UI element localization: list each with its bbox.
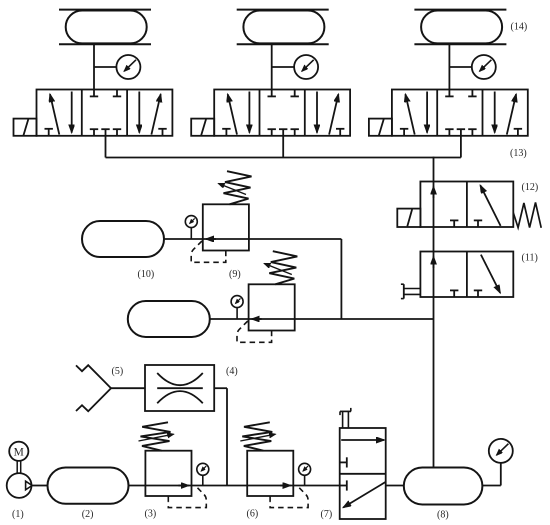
- label (5): [112, 366, 124, 377]
- svg-text:M: M: [14, 446, 24, 458]
- wire: valve 1 outlet down to manifold: [105, 136, 107, 158]
- 5/3 directional valve body 3: [392, 90, 528, 136]
- pressure gauge G2: [294, 55, 318, 79]
- valve 3 left position: crossed flow arrows: [400, 92, 427, 136]
- valve (7) lower position: blocked port: [340, 480, 347, 490]
- pressure gauge of (3): [197, 463, 209, 475]
- valve (12) flow arrow up: [433, 187, 435, 199]
- air-spring cylinder 1, plates and capsule: [59, 10, 151, 45]
- pressure regulator (9) body: [203, 204, 249, 250]
- regulator (second, unlabelled) adjustable spring: [264, 251, 297, 284]
- air intake branch (5): [76, 365, 145, 411]
- svg-text:(6): (6): [247, 509, 259, 520]
- main supply riser wire x=433.5: [433, 157, 435, 468]
- 3/2 valve (11) body: [420, 252, 513, 298]
- pressure regulator (6) body: [247, 451, 293, 496]
- valve (12) blocked port left box: [450, 220, 458, 227]
- label (6): [247, 509, 259, 520]
- valve 2 centre position: blocked ports: [268, 90, 299, 136]
- manifold wire joining the three valves: [106, 157, 461, 159]
- valve (7) lower position: exhaust arrow: [343, 482, 386, 508]
- regulator (second, unlabelled) flow arrow (leftward): [252, 318, 262, 320]
- valve (11) right position: blocked port and crossover arrow: [474, 255, 500, 297]
- wire: valve 3 outlet down to manifold: [460, 136, 462, 158]
- pressure regulator (second, unlabelled) body: [249, 284, 295, 330]
- second accumulator: [128, 301, 210, 337]
- svg-text:(9): (9): [229, 269, 241, 280]
- pressure gauge G1: [116, 55, 140, 79]
- wire: cylinder 3 to valve port: [448, 44, 450, 89]
- label (1): [12, 509, 24, 520]
- compressor/pump circle (1): [7, 473, 32, 498]
- receiver tank (2): [48, 468, 129, 504]
- regulator (second, unlabelled) pilot line (dashed): [237, 321, 272, 342]
- valve 1 right position: crossed flow arrows: [139, 92, 166, 136]
- solenoid pilot of valve 2: [191, 119, 214, 136]
- regulator (9) flow arrow (leftward): [206, 238, 216, 240]
- wire: cylinder 2 to valve port: [271, 44, 273, 89]
- air-spring cylinder 3, plates and capsule: [414, 10, 506, 45]
- svg-text:(5): (5): [112, 366, 124, 377]
- 3/2 valve (12) body: [420, 182, 513, 228]
- accumulator (8): [404, 468, 483, 505]
- wire: regulator (9) output down: [340, 239, 342, 319]
- valve 2 right position: crossed flow arrows: [317, 92, 344, 136]
- valve (11) blocked port left box: [450, 290, 458, 297]
- label (9): [229, 269, 241, 280]
- pressure gauge (8) outlet: [489, 439, 513, 463]
- valve 2 left position: crossed flow arrows: [222, 92, 249, 136]
- wire: venturi (4) outlet down to main line: [214, 388, 227, 485]
- valve 1 left position: crossed flow arrows: [45, 92, 72, 136]
- valve (11) flow arrow up: [433, 257, 435, 269]
- wire: cylinder 1 to valve port: [93, 44, 95, 89]
- return spring of valve (12): [513, 202, 541, 227]
- svg-text:(8): (8): [437, 510, 449, 521]
- gauge stem (6): [304, 475, 306, 485]
- pressure gauge of (9): [185, 216, 197, 228]
- regulator (6) adjustable spring: [240, 422, 275, 450]
- pressure regulator (3) body: [145, 451, 191, 496]
- pressure gauge of second regulator: [231, 296, 243, 308]
- pressure gauge of (6): [299, 463, 311, 475]
- svg-text:(3): (3): [145, 509, 157, 520]
- label (2): [82, 509, 94, 520]
- label (13): [510, 148, 527, 159]
- label (3): [145, 509, 157, 520]
- wire: accumulator (10) to regulator (9) and on to riser: [164, 238, 341, 240]
- main pressure line wire (bottom): [32, 485, 501, 487]
- regulator (3) adjustable spring: [139, 422, 174, 450]
- label (12): [522, 182, 539, 193]
- label (4): [226, 366, 238, 377]
- gauge stem (9): [190, 228, 192, 239]
- valve 3 right position: crossed flow arrows: [495, 92, 522, 136]
- pressure gauge G3: [472, 55, 496, 79]
- label (14): [511, 22, 528, 33]
- wire: tee to gauge 2: [272, 66, 294, 68]
- manual plunger actuator of valve (7): [340, 408, 351, 428]
- motor shaft: [17, 461, 21, 473]
- regulator (3) pilot line (dashed): [168, 488, 206, 508]
- svg-text:(1): (1): [12, 509, 24, 520]
- wire: tee to gauge 3: [449, 66, 471, 68]
- wire: valve 2 outlet down to manifold: [282, 136, 284, 158]
- valve (12) right position: blocked port and crossover arrow: [474, 185, 501, 227]
- wire: second accumulator to its regulator and to riser: [210, 318, 434, 320]
- svg-text:(2): (2): [82, 509, 94, 520]
- gauge stem (second regulator): [236, 308, 238, 319]
- label (8): [437, 510, 449, 521]
- regulator (9) pilot line (dashed): [191, 241, 226, 262]
- label (7): [321, 509, 333, 520]
- solenoid pilot of valve 1: [14, 119, 37, 136]
- 2-position valve (7) body: [340, 428, 386, 519]
- 5/3 directional valve body 2: [214, 90, 350, 136]
- label (11): [522, 253, 538, 264]
- solenoid pilot of valve 3: [369, 119, 392, 136]
- regulator (6) pilot line (dashed): [270, 488, 308, 508]
- valve 3 centre position: blocked ports: [445, 90, 476, 136]
- valve (7) upper blocked port: [340, 457, 347, 467]
- svg-text:(10): (10): [138, 269, 155, 280]
- svg-text:(13): (13): [510, 148, 527, 159]
- gauge stem at (8): [500, 463, 502, 486]
- venturi flow element (4): [145, 365, 214, 411]
- accumulator (10): [82, 221, 164, 257]
- 5/3 directional valve body 1: [37, 90, 173, 136]
- wire: tee to gauge 1: [94, 66, 116, 68]
- air-spring cylinder 2, plates and capsule: [237, 10, 329, 45]
- manual plunger actuator of valve (11): [401, 284, 421, 298]
- gauge stem (3): [202, 475, 204, 485]
- label (10): [138, 269, 155, 280]
- valve 1 centre position: blocked ports: [90, 90, 121, 136]
- solenoid pilot of valve (12): [397, 209, 420, 227]
- valve (7) upper position: through-flow arrow: [341, 439, 384, 441]
- svg-text:(11): (11): [522, 253, 538, 264]
- regulator (3) flow arrow (rightward): [178, 485, 188, 487]
- svg-text:(14): (14): [511, 22, 528, 33]
- regulator (9) adjustable spring: [219, 171, 252, 204]
- electric motor M of unit (1): [9, 442, 28, 461]
- svg-text:(12): (12): [522, 182, 539, 193]
- svg-text:(4): (4): [226, 366, 238, 377]
- svg-text:(7): (7): [321, 509, 333, 520]
- regulator (6) flow arrow (rightward): [280, 485, 290, 487]
